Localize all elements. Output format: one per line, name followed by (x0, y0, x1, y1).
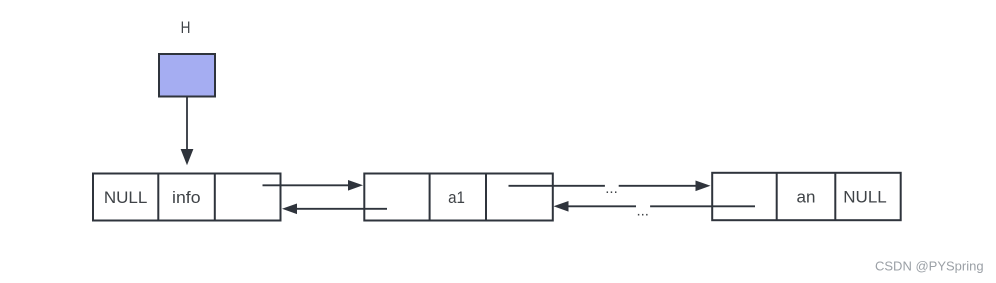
svg-text:info: info (172, 188, 201, 207)
node 2 box (prev | a1 | next) (364, 173, 553, 222)
svg-text:CSDN @PYSpring: CSDN @PYSpring (875, 259, 984, 274)
svg-text:NULL: NULL (843, 188, 886, 207)
wire: forward arrow node2 -> node3 (gap for ellipsis label) (509, 181, 711, 192)
svg-text:H: H (181, 18, 191, 37)
wire: forward arrow node1 -> node2 (263, 180, 364, 191)
svg-text:NULL: NULL (104, 188, 147, 207)
svg-text:...: ... (605, 180, 618, 197)
wire: backward arrow node2 -> node1 (282, 204, 387, 215)
svg-text:...: ... (636, 202, 649, 219)
head pointer box (159, 54, 215, 97)
svg-text:a1: a1 (448, 188, 465, 207)
wire: arrow from head box H down to node 1 (181, 98, 194, 166)
node 1 box (NULL | info | next) (93, 173, 281, 222)
wire: backward arrow node3 -> node2 (gap for ellipsis label) (554, 201, 756, 212)
node 3 box (prev | an | NULL) (712, 173, 901, 221)
svg-text:an: an (797, 188, 816, 207)
